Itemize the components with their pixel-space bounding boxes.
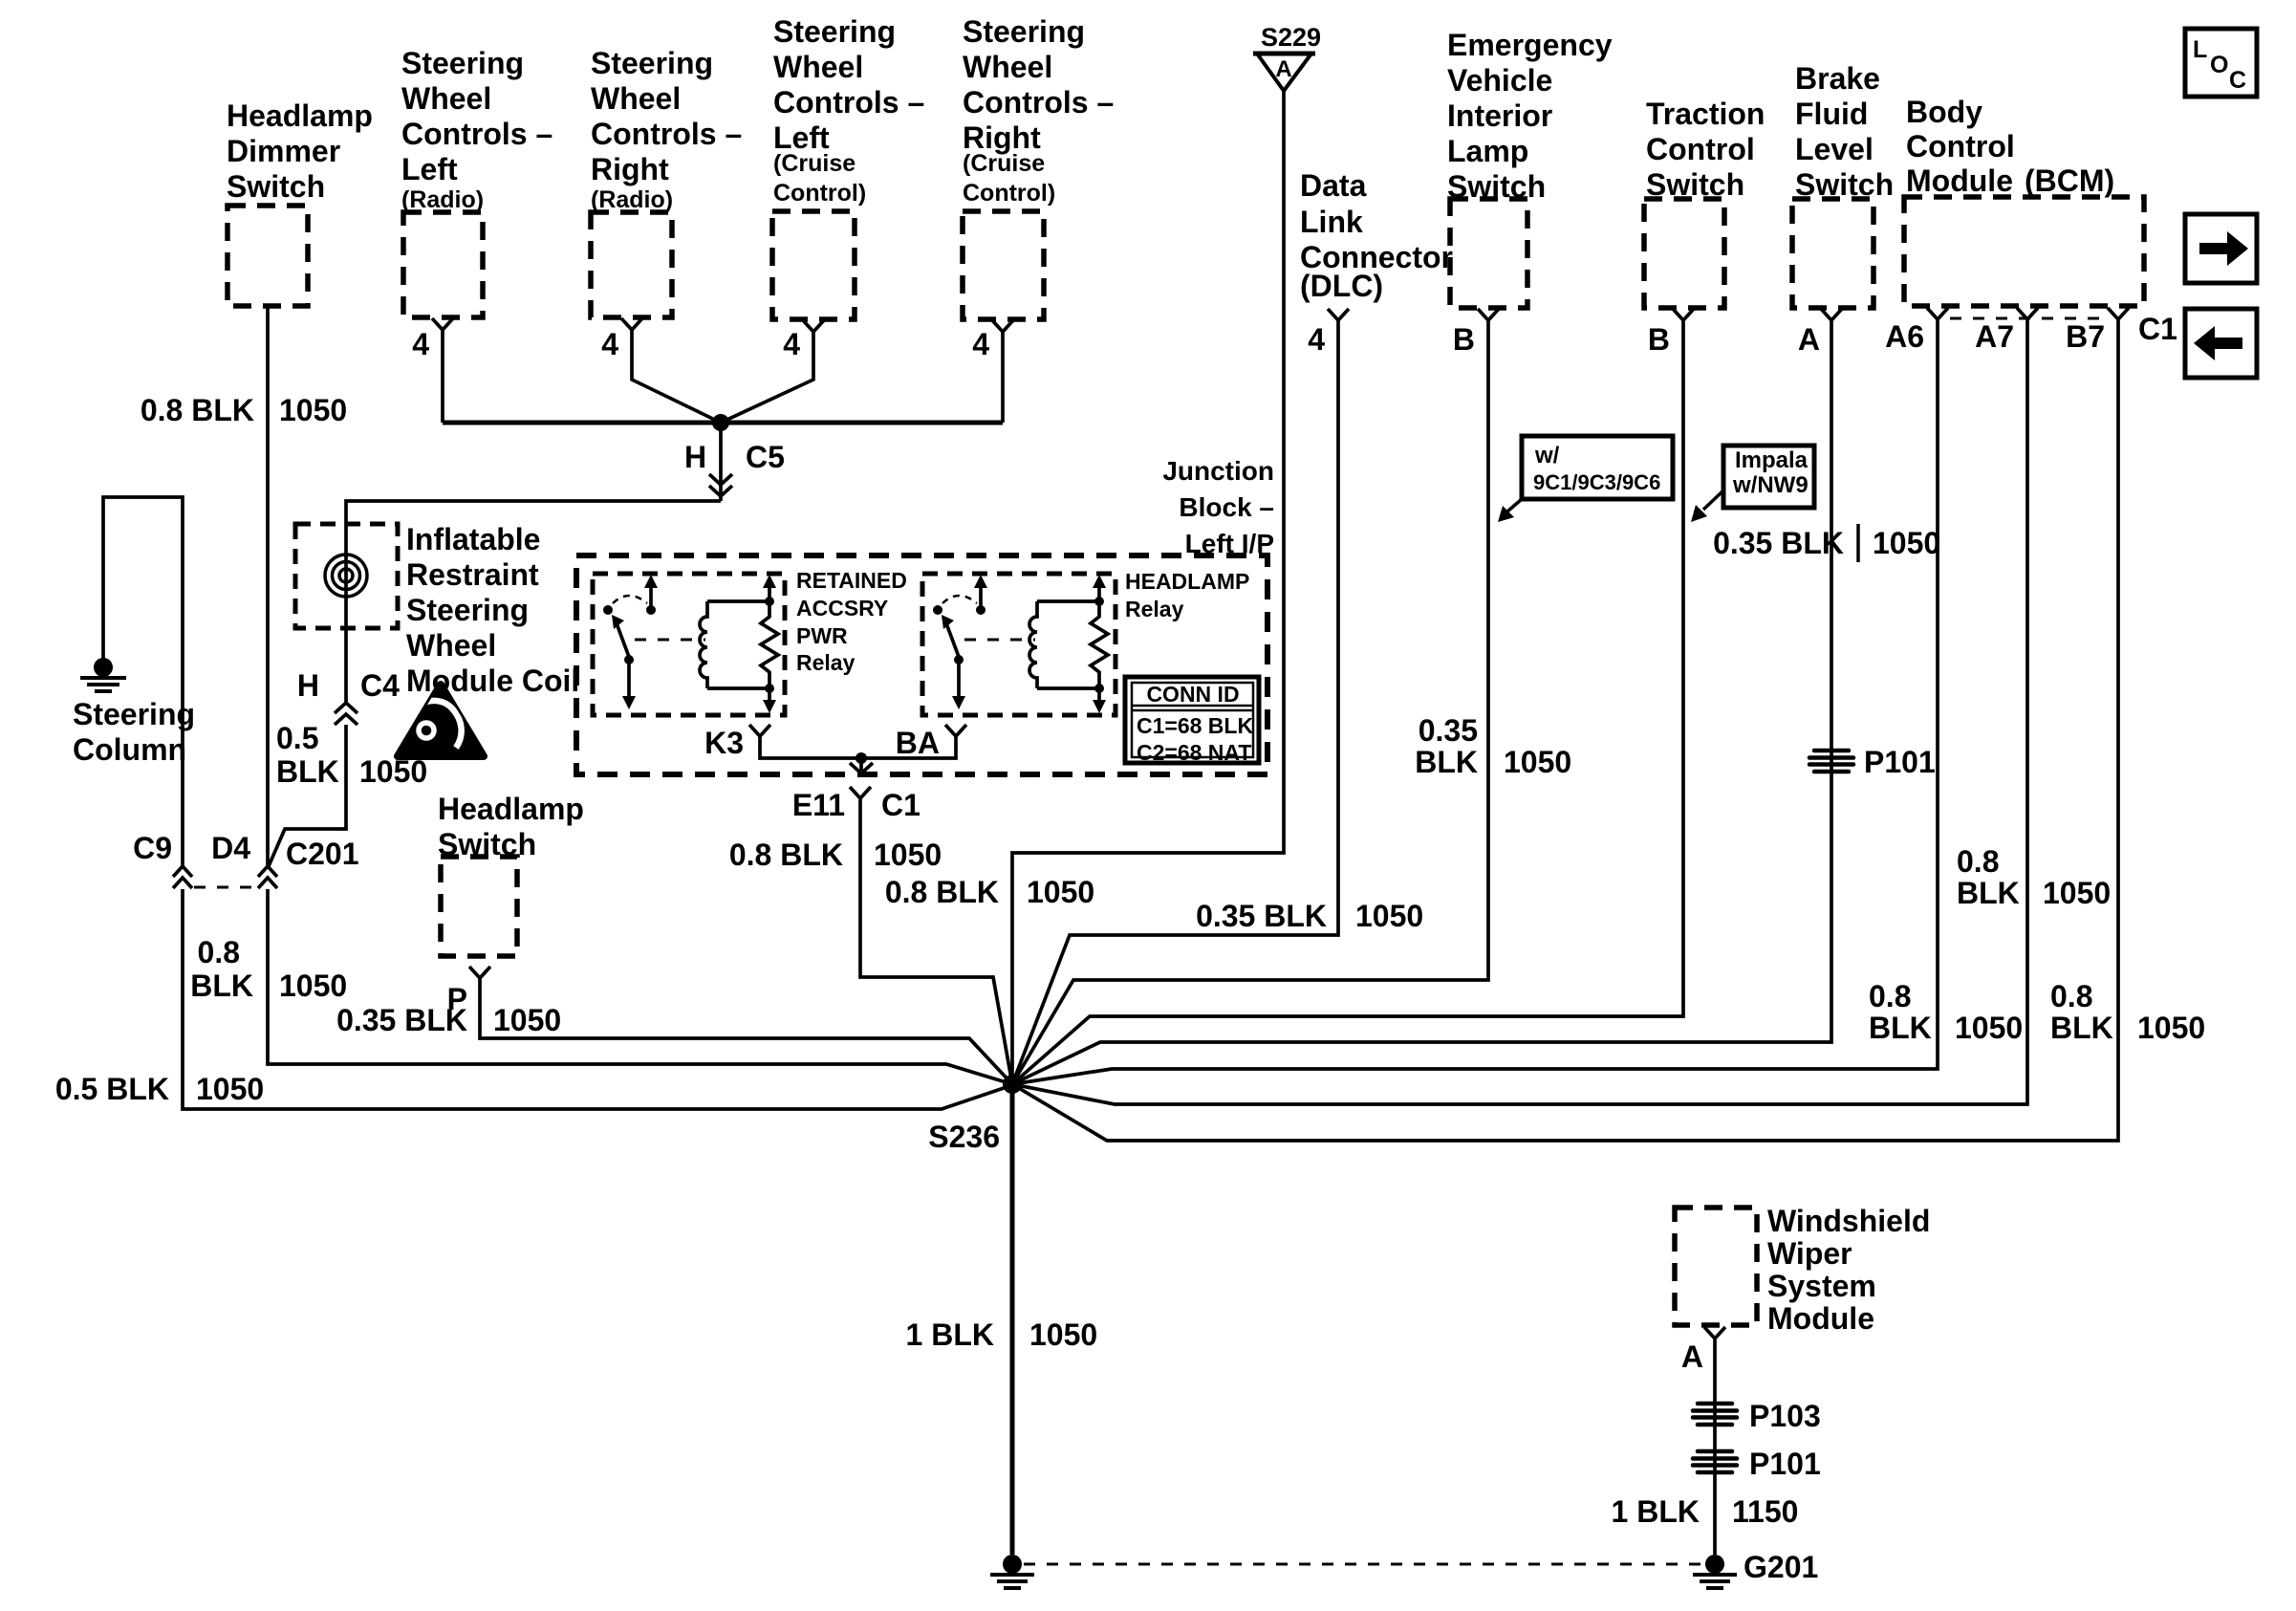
relay 2 resistor [1091, 601, 1108, 688]
wire: C201 C9 down to 0.5 BLK run to S236 [183, 889, 1012, 1109]
svg-text:Controls –: Controls – [773, 85, 924, 120]
windshield wiper system module label [1767, 1204, 1930, 1336]
headlamp relay label [1125, 569, 1249, 621]
headlamp switch label [438, 792, 584, 861]
svg-text:0.5 BLK: 0.5 BLK [55, 1072, 169, 1106]
connector Y below brake fluid level switch (pin A) [1821, 309, 1842, 333]
in-line connector C4 chevrons (pointing up) on coil wire [335, 703, 357, 725]
wire: radio-right to junction node [632, 341, 721, 423]
svg-text:H: H [684, 440, 715, 474]
svg-text:C2=68 NAT: C2=68 NAT [1137, 740, 1251, 765]
relay 1 mechanical link dashed [635, 639, 705, 642]
grommet P103 on wiper ground wire [1693, 1404, 1737, 1425]
wire: BCM B7 to S236 (0.8 BLK 1050) [1012, 333, 2118, 1141]
steering wheel controls right (radio) box [591, 212, 672, 317]
steering wheel controls left (radio) box [403, 212, 483, 317]
splice S236 node [1003, 1075, 1022, 1094]
svg-text:Control: Control [1646, 132, 1755, 166]
svg-text:Inflatable: Inflatable [406, 522, 540, 556]
windshield wiper system module box [1675, 1208, 1757, 1325]
svg-text:Controls –: Controls – [963, 85, 1114, 120]
svg-text:4: 4 [1308, 322, 1325, 357]
connector Y at BCM pin B7 [2108, 308, 2129, 333]
svg-text:C9: C9 [133, 831, 172, 865]
connector Y below wiper module (pin A) [1704, 1327, 1725, 1350]
relay 1 coil bottom node and arrow [763, 684, 776, 713]
svg-text:0.8: 0.8 [2050, 979, 2092, 1013]
svg-text:(BCM): (BCM) [2025, 163, 2114, 198]
wire label 0.5 BLK 1050 (C9 wire) [55, 1072, 264, 1106]
svg-text:G201: G201 [1744, 1550, 1818, 1584]
svg-text:E11: E11 [792, 788, 845, 822]
svg-text:BA: BA [896, 726, 940, 760]
svg-text:Fluid: Fluid [1795, 97, 1868, 131]
BCM connector dashed pin line [1950, 317, 2108, 320]
svg-text:0.8: 0.8 [1869, 979, 1911, 1013]
svg-text:Steering: Steering [591, 46, 713, 80]
svg-text:A: A [1275, 56, 1291, 82]
callout arrow to traction wire [1691, 490, 1723, 522]
wire label 1 BLK 1050 (S236 ground wire) [906, 1317, 1098, 1352]
svg-text:Body: Body [1906, 95, 1982, 129]
junction node of steering wheel control wires [712, 414, 729, 431]
wire: wiper module A down to G201 [1713, 1350, 1717, 1555]
svg-text:Steering: Steering [963, 14, 1085, 49]
svg-text:0.35 BLK: 0.35 BLK [1196, 899, 1327, 933]
wire label 0.35 BLK 1050 (headlamp switch wire) [336, 1003, 561, 1037]
svg-text:1050: 1050 [196, 1072, 264, 1106]
wire: cruise-left to junction node [721, 343, 813, 423]
svg-text:Control: Control [1906, 129, 2015, 163]
headlamp switch box [441, 857, 517, 956]
relay 1 lower contact arrow [622, 660, 636, 709]
brake fluid level switch box [1792, 199, 1874, 308]
svg-text:(Radio): (Radio) [401, 186, 484, 213]
relay 2 coil (inductor) [1029, 601, 1037, 688]
wire label 0.8 BLK 1050 (D4 wire) [190, 935, 347, 1003]
svg-text:L: L [2193, 36, 2207, 63]
svg-text:C4: C4 [360, 668, 400, 703]
svg-text:0.8: 0.8 [198, 935, 240, 969]
svg-text:(Cruise: (Cruise [773, 150, 856, 177]
svg-text:1 BLK: 1 BLK [906, 1317, 994, 1352]
wire: traction control B to S236 (0.35 BLK 1050) [1012, 333, 1683, 1084]
wire: C201 D4 down to 0.8 BLK run to S236 [268, 889, 1012, 1084]
svg-text:Left: Left [401, 152, 458, 186]
dashed ground tie line to G201 [1024, 1563, 1702, 1566]
svg-text:Relay: Relay [1125, 597, 1184, 621]
steering wheel controls left (radio) label [401, 46, 552, 213]
svg-text:B: B [1648, 322, 1670, 357]
headlamp dimmer switch label [227, 98, 373, 204]
wire: lamp switch B to S236 (0.35 BLK 1050) [1012, 333, 1488, 1084]
svg-text:B7: B7 [2066, 319, 2105, 354]
svg-text:1150: 1150 [1732, 1494, 1798, 1529]
svg-text:w/NW9: w/NW9 [1732, 472, 1809, 498]
connector Y below traction control switch (pin B) [1673, 309, 1694, 333]
connector Y below lamp switch (pin B) [1478, 309, 1499, 333]
svg-text:ACCSRY: ACCSRY [796, 596, 888, 620]
svg-text:Vehicle: Vehicle [1447, 63, 1552, 98]
connector Y below radio-right box [621, 318, 642, 341]
svg-text:0.35 BLK: 0.35 BLK [336, 1003, 467, 1037]
relay 2 coil bottom node and arrow [1093, 684, 1106, 713]
svg-text:K3: K3 [704, 726, 744, 760]
svg-text:B: B [1453, 322, 1475, 357]
wire label 0.8 BLK 1050 (S229 wire) [885, 875, 1094, 909]
body control module (BCM) label [1906, 95, 2114, 198]
traction control switch label [1646, 97, 1765, 202]
wire: BCM A6 to S236 (0.8 BLK 1050) [1012, 333, 1938, 1084]
svg-text:1050: 1050 [279, 393, 347, 427]
svg-text:Steering: Steering [406, 593, 529, 627]
wire label 0.35 BLK 1050 (traction wire, with bar) [1713, 524, 1940, 562]
wire: brake fluid A to S236 (0.8 BLK 1050) [1012, 333, 1831, 1084]
relay 2 movable arm with arrowhead [942, 615, 964, 664]
wire: junction node down to C5 connector [719, 423, 723, 501]
svg-text:BLK: BLK [276, 754, 339, 789]
svg-text:Windshield: Windshield [1767, 1204, 1930, 1238]
svg-text:Wheel: Wheel [591, 81, 681, 116]
svg-text:1050: 1050 [874, 838, 942, 872]
relay 1 movable arm with arrowhead [612, 615, 634, 664]
in-line connector C201 chevrons at pin D4 (pointing up) [258, 866, 277, 888]
svg-text:0.8 BLK: 0.8 BLK [885, 875, 999, 909]
svg-text:O: O [2210, 52, 2228, 78]
svg-text:4: 4 [412, 327, 429, 361]
svg-text:CONN ID: CONN ID [1146, 682, 1239, 707]
relay 2 switch fixed contact arrow [974, 575, 987, 615]
svg-text:C1: C1 [2138, 312, 2177, 346]
svg-text:P101: P101 [1749, 1447, 1821, 1481]
svg-text:1 BLK: 1 BLK [1612, 1494, 1700, 1529]
steering wheel controls left (cruise) box [772, 211, 855, 319]
svg-text:HEADLAMP: HEADLAMP [1125, 569, 1249, 594]
grommet P101 on wiper ground wire [1693, 1451, 1737, 1472]
svg-text:(DLC): (DLC) [1300, 269, 1383, 303]
svg-text:0.8 BLK: 0.8 BLK [141, 393, 254, 427]
svg-text:D4: D4 [211, 831, 250, 865]
steering wheel controls right (cruise) label [963, 14, 1114, 207]
svg-text:1050: 1050 [1955, 1011, 2023, 1045]
connector Y below cruise-right box [992, 320, 1013, 343]
svg-text:(Radio): (Radio) [591, 186, 673, 213]
svg-text:Steering: Steering [401, 46, 524, 80]
svg-text:1050: 1050 [279, 969, 347, 1003]
callout box w/ 9C1/9C3/9C6 [1522, 436, 1673, 499]
junction block exit arrow (chevron down) [850, 758, 873, 773]
svg-text:Wiper: Wiper [1767, 1236, 1852, 1271]
svg-text:RETAINED: RETAINED [796, 568, 907, 593]
wire label 0.8 BLK 1050 (E11 wire) [729, 838, 942, 872]
svg-text:0.5: 0.5 [276, 721, 318, 755]
wire: bus joining four steering wheel controls [443, 421, 1003, 425]
emergency vehicle interior lamp switch box [1450, 199, 1527, 308]
svg-text:0.8: 0.8 [1957, 844, 1999, 879]
svg-text:9C1/9C3/9C6: 9C1/9C3/9C6 [1533, 470, 1660, 494]
wire: headlamp switch P to S236 (0.35 BLK 1050) [480, 990, 1012, 1084]
svg-text:Data: Data [1300, 168, 1367, 203]
brake fluid level switch label [1795, 61, 1894, 202]
wire: BCM A7 to S236 (0.8 BLK 1050) [1012, 333, 2027, 1104]
svg-text:1050: 1050 [2137, 1011, 2205, 1045]
connector Y at BCM pin A6 [1927, 308, 1948, 333]
svg-text:Module: Module [1906, 163, 2013, 198]
wire: cruise-right down to bus [1001, 343, 1005, 423]
wire: DLC pin 4 to S236 (0.35 BLK 1050) [1012, 333, 1338, 1084]
wire: coil wire down from C4 to C201 [269, 725, 346, 866]
wire label 0.8 BLK 1050 (B7 wire) [2050, 979, 2205, 1045]
retained accsry pwr relay dashed box [593, 574, 785, 715]
svg-text:BLK: BLK [1869, 1011, 1932, 1045]
svg-text:C201: C201 [286, 837, 359, 871]
page-continue left arrow box [2185, 309, 2257, 378]
junction block cavity Y at BA [945, 725, 966, 744]
svg-text:Wheel: Wheel [406, 628, 496, 663]
svg-text:0.35: 0.35 [1419, 713, 1478, 748]
svg-text:A6: A6 [1885, 319, 1924, 354]
svg-text:Dimmer: Dimmer [227, 134, 340, 168]
relay 1 coil frame top/bottom [707, 601, 769, 688]
wire: headlamp dimmer switch down to C201 pin D4 [266, 306, 270, 866]
body control module box [1904, 197, 2144, 306]
svg-text:Wheel: Wheel [773, 50, 863, 84]
headlamp relay dashed box [922, 574, 1116, 715]
connector Y below cruise-left box [803, 320, 824, 343]
svg-text:1050: 1050 [1027, 875, 1094, 909]
wire: S229 down and over to S236 (0.8 BLK 1050) [1012, 91, 1284, 1084]
clockspring coil spiral symbol [325, 555, 367, 597]
steering column label [73, 697, 195, 767]
svg-text:S236: S236 [928, 1120, 1000, 1154]
svg-text:w/: w/ [1534, 443, 1560, 468]
svg-text:C1=68 BLK: C1=68 BLK [1137, 713, 1253, 738]
wire: E11 down and over to S236 (0.8 BLK 1050) [860, 811, 1012, 1084]
relay 2 coil frame top/bottom [1037, 601, 1099, 688]
svg-text:Junction: Junction [1162, 456, 1274, 486]
svg-text:Interior: Interior [1447, 98, 1552, 133]
relay 1 coil (inductor) [700, 601, 707, 688]
svg-text:Control): Control) [963, 180, 1055, 207]
steering wheel controls right (radio) label [591, 46, 742, 213]
wire: S236 down to ground (1 BLK 1050) [1010, 1084, 1015, 1555]
junction block outer dashed box [576, 555, 1267, 774]
wire: steering column ground up and over to C201 pin C9 [103, 497, 183, 866]
relay 1 switch pivot [603, 605, 613, 615]
wire label 1 BLK 1150 [1612, 1494, 1799, 1529]
callout box Impala w/NW9 [1723, 446, 1814, 508]
svg-text:BLK: BLK [1415, 745, 1478, 779]
page-continue right arrow box [2185, 214, 2257, 283]
wire label 0.8 BLK 1050 (headlamp dimmer wire) [141, 393, 347, 427]
wire: C5 elbow left to inflatable restraint coil [346, 501, 721, 703]
svg-text:Controls –: Controls – [591, 117, 742, 151]
junction block cavity Y at K3 [749, 725, 770, 744]
relay 1 resistor [761, 601, 778, 688]
svg-text:System: System [1767, 1269, 1876, 1303]
svg-text:S229: S229 [1261, 23, 1321, 52]
svg-text:1050: 1050 [359, 754, 427, 789]
svg-text:1050: 1050 [2043, 876, 2111, 910]
svg-text:PWR: PWR [796, 623, 848, 648]
svg-text:Steering: Steering [773, 14, 896, 49]
svg-text:A7: A7 [1975, 319, 2014, 354]
svg-text:H: H [297, 668, 319, 703]
retained accsry pwr relay label [796, 568, 907, 675]
svg-text:A: A [1798, 322, 1820, 357]
svg-text:Steering: Steering [73, 697, 195, 731]
relay 2 switch motion dashed arc [942, 596, 977, 603]
svg-text:Module: Module [1767, 1301, 1874, 1336]
relay 2 switch pivot [933, 605, 942, 615]
svg-text:BLK: BLK [2050, 1011, 2113, 1045]
svg-text:P101: P101 [1864, 745, 1936, 779]
svg-text:BLK: BLK [1957, 876, 2020, 910]
connector Y below radio-left box [432, 318, 453, 341]
steering wheel controls left (cruise) label [773, 14, 924, 207]
svg-text:Right: Right [591, 152, 669, 186]
inflatable restraint steering wheel module coil label [406, 522, 579, 698]
connector Y at BCM pin A7 [2017, 308, 2038, 333]
ground symbol at end of S236 wire [990, 1555, 1034, 1588]
svg-text:A: A [1681, 1339, 1703, 1374]
relay 2 coil top node and arrow [1093, 575, 1106, 606]
svg-text:C5: C5 [746, 440, 785, 474]
grommet P101 on brake fluid wire [1809, 751, 1853, 772]
wire label 0.5 BLK 1050 (coil wire) [276, 721, 427, 789]
svg-text:(Cruise: (Cruise [963, 150, 1045, 177]
wire label 0.35 BLK 1050 (DLC wire) [1196, 899, 1423, 933]
in-line connector C201 chevrons at pin C9 (pointing up) [173, 866, 192, 888]
svg-text:4: 4 [972, 327, 989, 361]
data link connector (DLC) label [1300, 168, 1453, 303]
wire: radio-left to bus [441, 341, 444, 423]
steering column ground symbol [80, 658, 126, 691]
junction block - left I/P label [1162, 456, 1274, 558]
svg-text:Headlamp: Headlamp [438, 792, 584, 826]
svg-text:Brake: Brake [1795, 61, 1880, 96]
CONN ID table text [1137, 682, 1253, 765]
svg-text:1050: 1050 [1355, 899, 1423, 933]
relay 2 mechanical link dashed [964, 639, 1035, 642]
steering wheel controls right (cruise) box [963, 211, 1044, 319]
emergency vehicle interior lamp switch label [1447, 28, 1613, 204]
svg-text:BLK: BLK [190, 969, 253, 1003]
svg-text:Switch: Switch [227, 169, 325, 204]
in-line connector C5 chevrons (pointing down) [709, 474, 732, 496]
callout arrow to lamp switch wire [1498, 499, 1522, 522]
traction control switch box [1644, 199, 1724, 308]
svg-text:Emergency: Emergency [1447, 28, 1613, 62]
CONN ID table box [1125, 677, 1259, 763]
svg-text:Level: Level [1795, 132, 1874, 166]
svg-text:1050: 1050 [1029, 1317, 1097, 1352]
wire: K3 and BA joined inside junction block [760, 744, 956, 758]
svg-text:1050: 1050 [1873, 526, 1940, 560]
svg-text:C: C [2229, 67, 2246, 94]
svg-text:Wheel: Wheel [401, 81, 491, 116]
svg-text:P103: P103 [1749, 1399, 1821, 1433]
svg-text:1050: 1050 [1504, 745, 1571, 779]
airbag warning triangle [398, 685, 484, 756]
connector Y at E11 below junction block [850, 787, 871, 811]
svg-text:0.35 BLK: 0.35 BLK [1713, 526, 1844, 560]
LOC reference box [2185, 29, 2257, 97]
svg-text:Traction: Traction [1646, 97, 1765, 131]
connector Y below headlamp switch [469, 967, 490, 990]
svg-text:1050: 1050 [493, 1003, 561, 1037]
ground G201 symbol [1693, 1555, 1737, 1588]
svg-text:Restraint: Restraint [406, 557, 539, 592]
svg-text:Impala: Impala [1735, 447, 1809, 473]
wire label 0.8 BLK 1050 (A6 wire) [1869, 979, 2023, 1045]
svg-text:Control): Control) [773, 180, 866, 207]
svg-text:4: 4 [783, 327, 800, 361]
svg-text:0.8 BLK: 0.8 BLK [729, 838, 843, 872]
connector Y at DLC pin 4 [1328, 309, 1349, 333]
connector C201 dashed line [194, 886, 257, 889]
wire label 0.8 BLK 1050 (A7 wire) [1957, 844, 2111, 910]
wire label 0.35 BLK 1050 (lamp switch wire) [1415, 713, 1571, 779]
svg-text:Wheel: Wheel [963, 50, 1052, 84]
svg-text:4: 4 [601, 327, 618, 361]
inflatable restraint coil dashed box [295, 524, 398, 628]
headlamp dimmer switch box [227, 206, 308, 306]
svg-text:C1: C1 [881, 788, 921, 822]
svg-text:Column: Column [73, 732, 186, 767]
splice symbol S229 triangle with A [1253, 54, 1315, 91]
svg-text:Relay: Relay [796, 650, 856, 675]
svg-text:Link: Link [1300, 205, 1363, 239]
relay 1 switch fixed contact arrow [644, 575, 658, 615]
junction block internal node [856, 752, 867, 764]
relay 1 coil top node and arrow [763, 575, 776, 606]
relay 2 lower contact arrow [952, 660, 965, 709]
svg-text:Lamp: Lamp [1447, 134, 1528, 168]
relay 1 switch motion dashed arc [613, 596, 647, 603]
svg-text:Headlamp: Headlamp [227, 98, 373, 133]
svg-text:Block –: Block – [1179, 492, 1274, 522]
svg-text:Controls –: Controls – [401, 117, 552, 151]
